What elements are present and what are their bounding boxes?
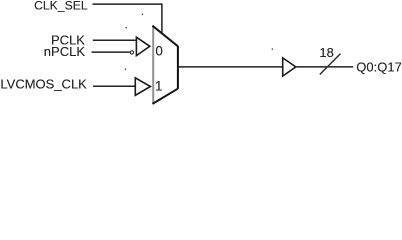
- inverting bubble on nPCLK input: [130, 51, 133, 54]
- svg-text:0: 0: [155, 43, 162, 58]
- wire LVCMOS_CLK: [93, 85, 135, 87]
- speckle dot 2: [126, 27, 127, 28]
- speckle dot 3: [272, 48, 273, 49]
- svg-text:nPCLK: nPCLK: [44, 44, 86, 59]
- svg-text:1: 1: [155, 78, 162, 93]
- mux U3 body fill: [152, 26, 177, 104]
- svg-text:Q0:Q17: Q0:Q17: [356, 60, 402, 75]
- svg-text:CLK_SEL: CLK_SEL: [34, 0, 88, 12]
- svg-text:LVCMOS_CLK: LVCMOS_CLK: [0, 77, 87, 92]
- buffer U2 LVCMOS input: [135, 78, 150, 96]
- mux U3 right edge: [177, 46, 179, 89]
- buffer U4 output driver: [283, 58, 296, 76]
- wire CLK_SEL to mux select: [93, 4, 162, 34]
- buffer U1 differential receiver PCLK/nPCLK: [136, 37, 149, 55]
- speckle dot 1: [142, 14, 143, 15]
- wire nPCLK: [92, 51, 130, 53]
- bus width slash: [320, 54, 341, 75]
- mux U3 left edge: [152, 26, 154, 104]
- wire mux output to buffer: [179, 66, 283, 68]
- svg-text:18: 18: [319, 45, 333, 60]
- speckle dot 4: [125, 69, 126, 70]
- wire PCLK: [93, 39, 136, 41]
- mux U3 top edge: [152, 26, 177, 47]
- wire buffer to Q outputs: [296, 66, 353, 68]
- mux U3 bottom edge: [153, 89, 178, 104]
